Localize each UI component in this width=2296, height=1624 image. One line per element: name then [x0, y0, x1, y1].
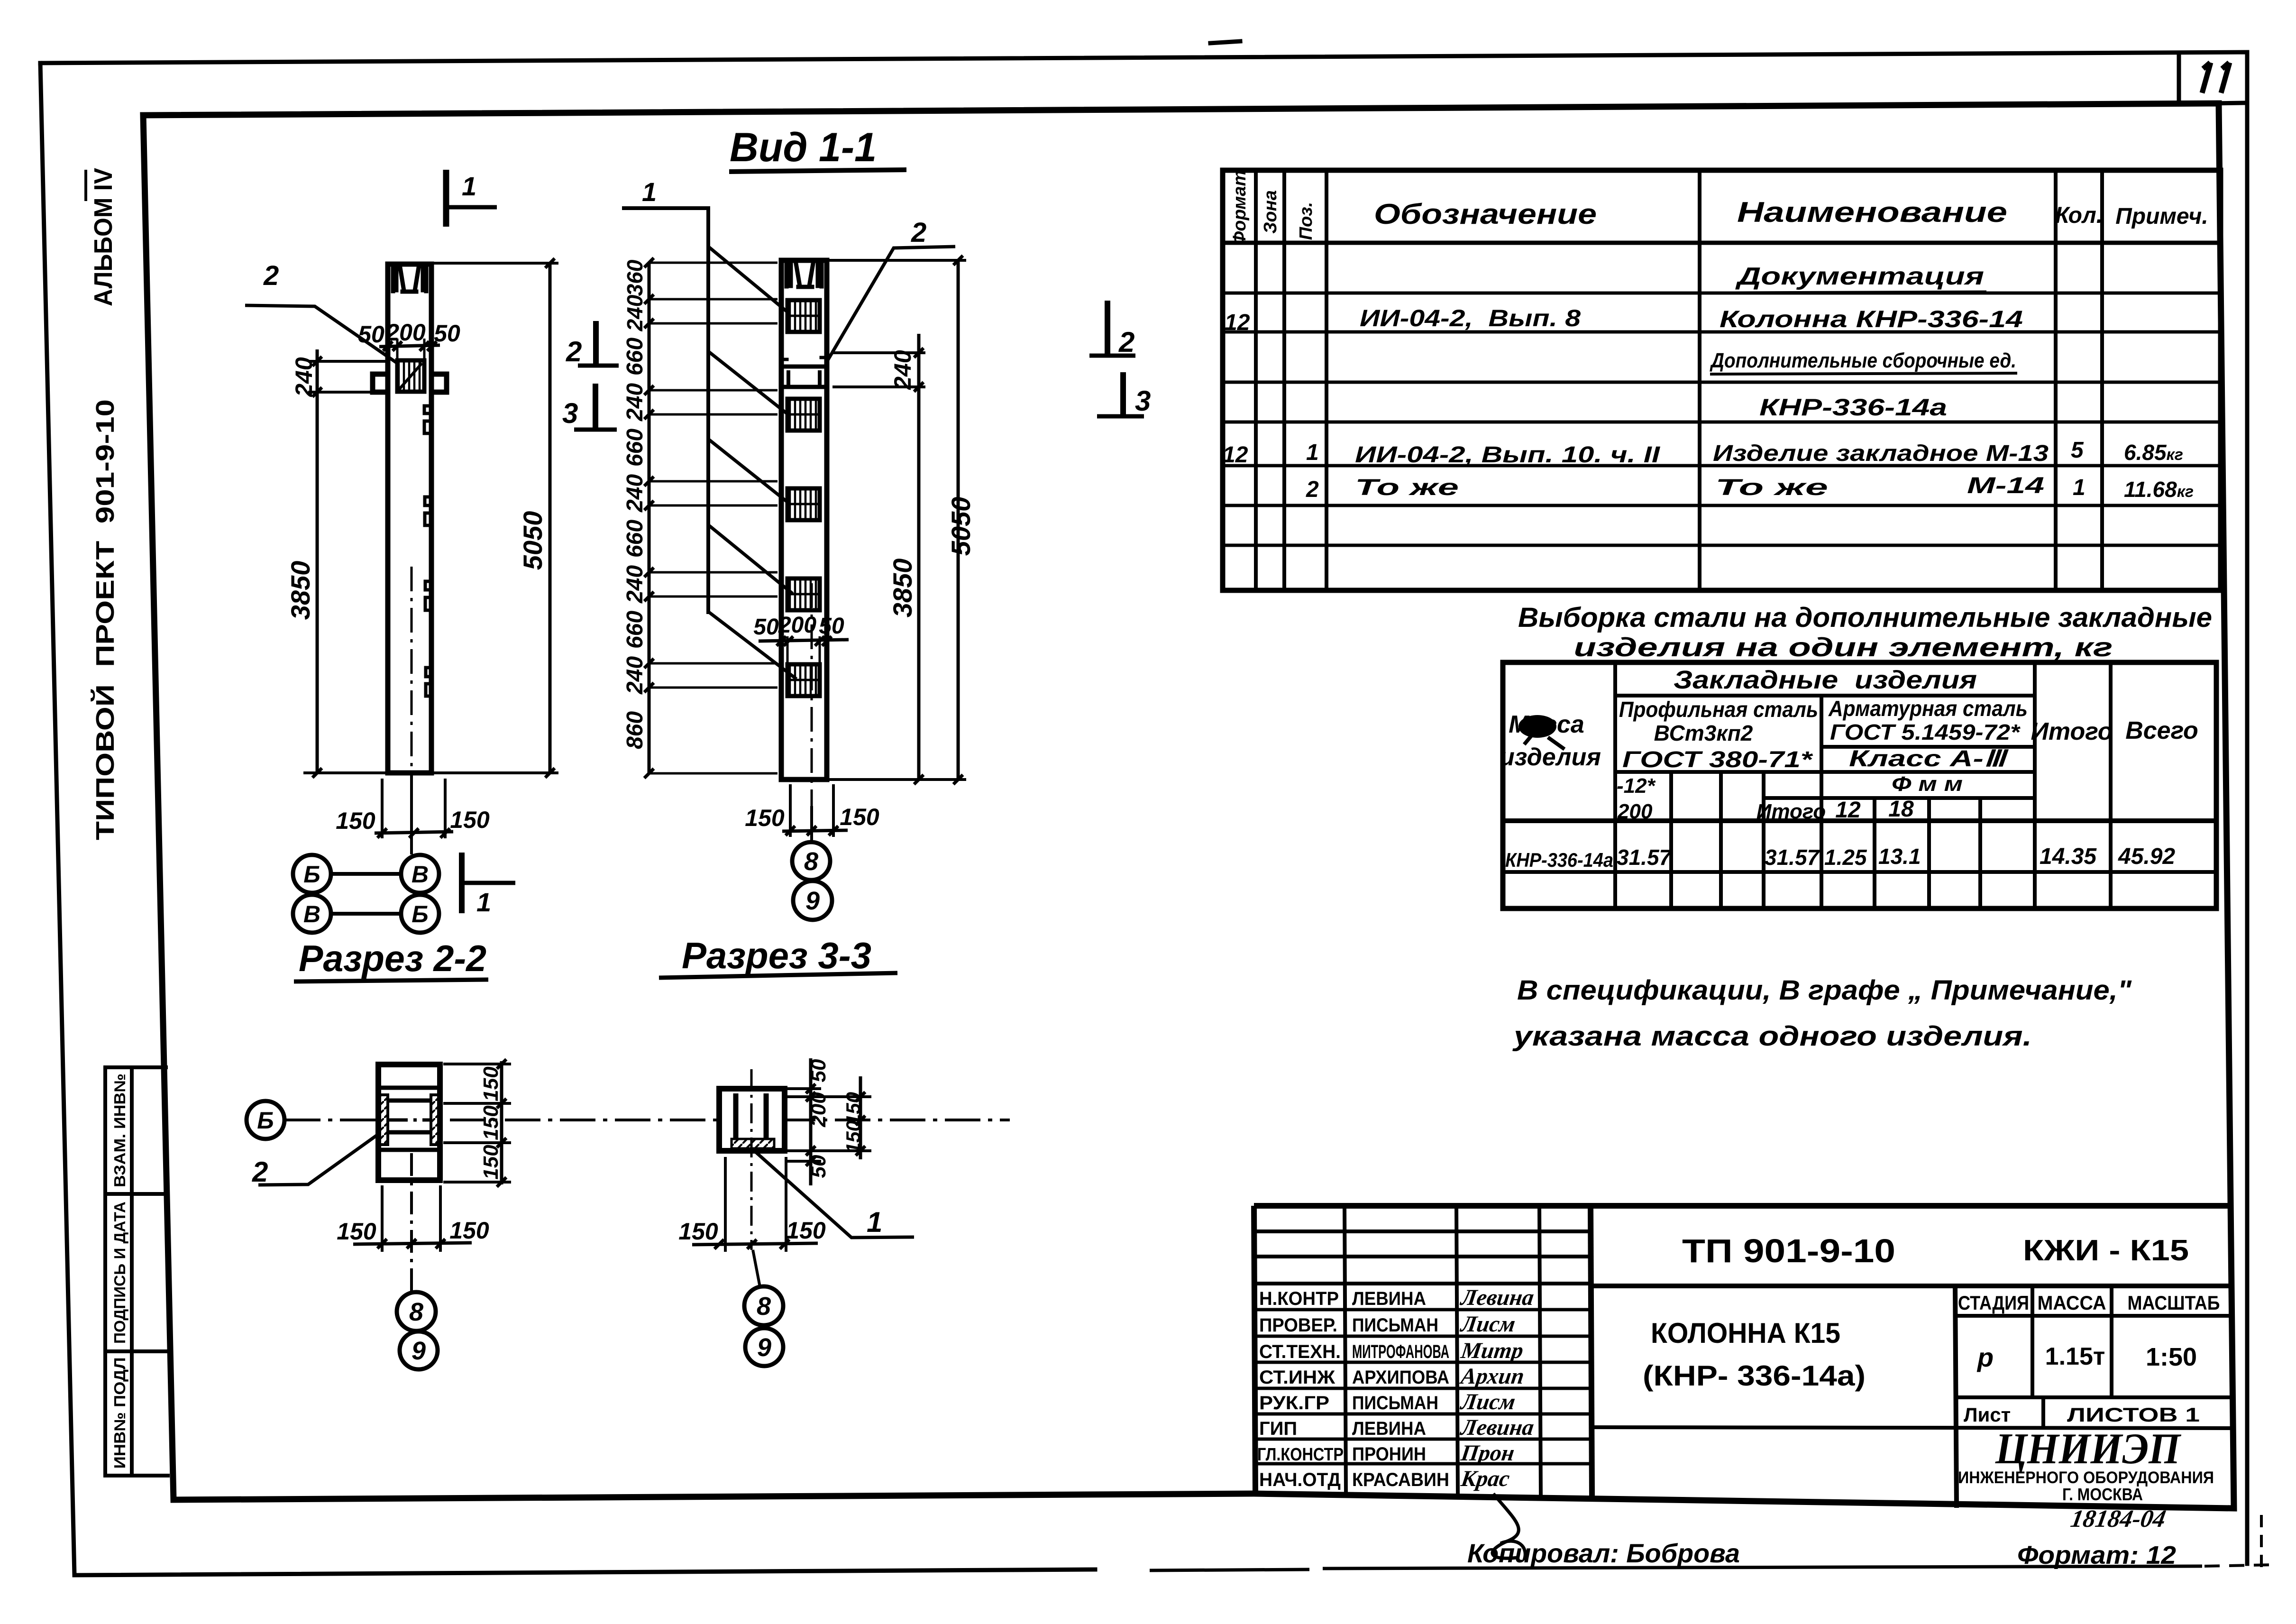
svg-text:150: 150: [842, 1120, 864, 1154]
svg-text:Б: Б: [257, 1107, 274, 1134]
svg-text:Наименование: Наименование: [1737, 196, 2007, 228]
column 2 centerline: [811, 583, 813, 806]
axis line B: [285, 1119, 1010, 1121]
svg-text:ТП 901-9-10: ТП 901-9-10: [1682, 1232, 1895, 1269]
svg-text:Колонна КНР-336-14: Колонна КНР-336-14: [1720, 306, 2023, 332]
svg-text:8: 8: [409, 1298, 423, 1326]
svg-text:150: 150: [479, 1105, 503, 1140]
svg-text:13.1: 13.1: [1878, 844, 1921, 869]
axis circle B: [247, 1101, 284, 1139]
svg-text:150: 150: [479, 1066, 503, 1101]
section mark 1 (top of column 1): [443, 170, 449, 227]
axis dash through section: [389, 1119, 431, 1122]
axis circle 9 (section 2-2): [400, 1331, 438, 1369]
dims 150 150 (second stack section 3-3): [859, 1076, 862, 1159]
svg-text:СТ.ТЕХН.: СТ.ТЕХН.: [1259, 1341, 1341, 1362]
svg-text:1: 1: [642, 177, 657, 207]
dim 150x3 (right of section 2-2): [443, 1064, 511, 1182]
svg-text:660: 660: [622, 520, 648, 558]
svg-text:р: р: [1976, 1342, 1994, 1372]
anchors: [736, 1093, 766, 1140]
svg-text:150: 150: [450, 807, 490, 833]
svg-text:150: 150: [337, 1218, 376, 1245]
svg-text:2: 2: [911, 217, 926, 248]
svg-text:Разрез 2-2: Разрез 2-2: [299, 937, 486, 979]
svg-text:Масса: Масса: [1509, 711, 1584, 738]
inventory strip: [105, 1067, 132, 1476]
svg-text:ИИ-04-2, Вып. 8: ИИ-04-2, Вып. 8: [1360, 305, 1581, 331]
svg-text:ГОСТ 5.1459-72*: ГОСТ 5.1459-72*: [1830, 720, 2021, 744]
svg-text:50: 50: [807, 1155, 830, 1178]
svg-text:изделия: изделия: [1500, 743, 1601, 771]
svg-text:2: 2: [252, 1156, 268, 1188]
svg-text:Формат: Формат: [1230, 170, 1250, 246]
svg-text:3850: 3850: [285, 561, 315, 620]
svg-text:50: 50: [807, 1059, 830, 1082]
svg-text:Архип: Архип: [1458, 1364, 1526, 1389]
page number box: [2179, 53, 2246, 104]
section 2-2 outline: [378, 1064, 440, 1180]
svg-text:150: 150: [479, 1145, 503, 1180]
embedded plate M-14: [397, 360, 424, 392]
svg-text:ВЗАМ. ИНВ№: ВЗАМ. ИНВ№: [111, 1073, 128, 1187]
svg-text:5050: 5050: [946, 497, 976, 556]
svg-text:5050: 5050: [518, 511, 548, 570]
svg-text:НАЧ.ОТД: НАЧ.ОТД: [1259, 1469, 1341, 1490]
svg-text:ПРОВЕР.: ПРОВЕР.: [1259, 1315, 1337, 1336]
svg-text:3850: 3850: [887, 559, 917, 618]
svg-text:3: 3: [1135, 385, 1151, 417]
svg-text:ВСт3кп2: ВСт3кп2: [1654, 721, 1753, 745]
svg-text:ЛЕВИНА: ЛЕВИНА: [1352, 1288, 1426, 1309]
svg-text:Арматурная сталь: Арматурная сталь: [1828, 696, 2028, 721]
corbel right: [431, 374, 447, 392]
column 1 centerline: [411, 567, 413, 853]
svg-text:9: 9: [805, 887, 820, 915]
dim 150 150 (below section 3-3): [725, 1157, 786, 1252]
svg-text:РУК.ГР: РУК.ГР: [1259, 1393, 1329, 1413]
dim 150 150 (bottom column 1): [382, 779, 445, 838]
svg-text:АРХИПОВА: АРХИПОВА: [1352, 1367, 1449, 1388]
svg-text:СТАДИЯ: СТАДИЯ: [1958, 1292, 2029, 1314]
svg-text:50: 50: [358, 321, 384, 348]
dim 240 (corbel, column 1): [308, 361, 386, 392]
centerline to circles: [753, 1250, 760, 1287]
svg-text:МАСШТАБ: МАСШТАБ: [2128, 1292, 2220, 1314]
column KNR-336-14a body outline: [781, 260, 827, 780]
svg-text:Класс А-Ⅲ: Класс А-Ⅲ: [1849, 746, 2009, 771]
svg-text:2: 2: [566, 336, 582, 367]
embedded items M-13 (hatched): [787, 300, 820, 696]
svg-text:Итого: Итого: [2031, 718, 2113, 745]
section mark 3 (right pair): [1120, 372, 1126, 415]
svg-text:Б: Б: [303, 861, 320, 888]
svg-text:360: 360: [622, 259, 647, 296]
svg-text:АЛЬБОМ IV: АЛЬБОМ IV: [89, 168, 118, 306]
svg-text:240: 240: [622, 383, 648, 422]
svg-text:КНР-336-14а: КНР-336-14а: [1505, 849, 1613, 871]
column 2 top fork: [787, 261, 822, 286]
section mark 3 (left pair): [593, 384, 598, 428]
svg-text:ПИСЬМАН: ПИСЬМАН: [1352, 1393, 1438, 1413]
svg-text:Выборка стали на дополнительны: Выборка стали на дополнительные закладны…: [1518, 602, 2212, 633]
corbel left: [373, 374, 388, 392]
svg-text:СТ.ИНЖ: СТ.ИНЖ: [1259, 1367, 1336, 1388]
svg-text:240: 240: [622, 656, 648, 695]
svg-text:Ф м м: Ф м м: [1892, 772, 1963, 796]
svg-text:12: 12: [1835, 798, 1861, 823]
svg-text:МАССА: МАССА: [2038, 1292, 2106, 1314]
svg-text:50: 50: [819, 614, 844, 639]
svg-text:240: 240: [622, 294, 647, 331]
svg-text:Крас: Крас: [1459, 1466, 1511, 1491]
svg-text:9: 9: [412, 1337, 426, 1365]
svg-text:МИТРОФАНОВА: МИТРОФАНОВА: [1352, 1341, 1449, 1362]
svg-text:150: 150: [336, 807, 375, 834]
svg-text:31.57: 31.57: [1765, 845, 1820, 870]
svg-text:Б: Б: [412, 901, 428, 927]
svg-text:ЛИСТОВ 1: ЛИСТОВ 1: [2067, 1404, 2200, 1426]
svg-text:240: 240: [622, 474, 648, 513]
svg-text:В спецификации, В графе „ Прим: В спецификации, В графе „ Примечание,": [1517, 975, 2132, 1006]
svg-text:Поз.: Поз.: [1296, 202, 1316, 240]
svg-text:ПИСЬМАН: ПИСЬМАН: [1352, 1315, 1438, 1336]
svg-text:Всего: Всего: [2125, 717, 2198, 744]
svg-text:М-14: М-14: [1967, 473, 2044, 498]
svg-text:150: 150: [449, 1217, 489, 1244]
axis circle 8 (section 2-2): [397, 1292, 436, 1331]
axis circle 8 (section 3-3): [744, 1286, 783, 1325]
svg-text:То же: То же: [1355, 475, 1459, 500]
svg-text:Лист: Лист: [1964, 1404, 2011, 1426]
section mark 2 (right pair): [1105, 301, 1110, 355]
dim 5050 (column 2): [827, 260, 966, 780]
fold mark top: [1210, 41, 1240, 43]
svg-text:ЛЕВИНА: ЛЕВИНА: [1352, 1418, 1426, 1439]
svg-text:Прон: Прон: [1459, 1440, 1516, 1466]
svg-text:Зона: Зона: [1261, 190, 1281, 234]
embedded plate (hatched): [732, 1139, 774, 1148]
dim 150 150 (bottom column 2): [790, 784, 833, 837]
centerline down to circles: [410, 1153, 413, 1292]
axis circles B V V B: [410, 774, 413, 854]
column K15 body outline: [388, 264, 431, 773]
section mark 1 (bottom): [459, 853, 465, 913]
svg-text:150: 150: [842, 1092, 864, 1125]
svg-text:3: 3: [562, 397, 578, 429]
page number 11: [2202, 63, 2230, 93]
svg-text:ИИ-04-2, Вып. 10. ч. II: ИИ-04-2, Вып. 10. ч. II: [1355, 442, 1661, 468]
inner frame: [143, 103, 2234, 1508]
svg-text:КРАСАВИН: КРАСАВИН: [1352, 1469, 1449, 1490]
axis circle 8 (column 2): [792, 842, 830, 880]
svg-text:ТИПОВОЙ ПРОЕКТ 901-9-10: ТИПОВОЙ ПРОЕКТ 901-9-10: [91, 399, 119, 840]
svg-text:Митр: Митр: [1459, 1338, 1525, 1363]
svg-text:200: 200: [807, 1092, 830, 1128]
svg-text:5: 5: [2071, 438, 2084, 463]
svg-text:200: 200: [1617, 800, 1653, 823]
svg-text:240: 240: [291, 357, 317, 397]
svg-text:ГИП: ГИП: [1259, 1418, 1297, 1439]
svg-text:31.57: 31.57: [1617, 845, 1673, 870]
svg-text:50: 50: [434, 320, 460, 347]
svg-text:Вид 1-1: Вид 1-1: [730, 125, 877, 170]
svg-text:660: 660: [622, 429, 648, 467]
svg-text:Дополнительные сборочные ед.: Дополнительные сборочные ед.: [1709, 349, 2016, 372]
svg-text:150: 150: [745, 805, 785, 831]
svg-text:Лисм: Лисм: [1458, 1389, 1517, 1414]
svg-text:Лисм: Лисм: [1458, 1312, 1517, 1337]
svg-text:150: 150: [840, 804, 879, 830]
svg-text:Документация: Документация: [1735, 263, 1984, 290]
svg-text:660: 660: [622, 611, 648, 649]
svg-text:1: 1: [2073, 475, 2086, 500]
svg-text:18: 18: [1888, 797, 1914, 822]
svg-text:ГОСТ 380-71*: ГОСТ 380-71*: [1622, 747, 1813, 772]
svg-text:То же: То же: [1715, 475, 1828, 500]
joint at corbel level: [781, 367, 827, 387]
M-13 edge marks on right face: [424, 406, 431, 696]
svg-text:Разрез 3-3: Разрез 3-3: [682, 935, 871, 976]
svg-text:КОЛОННА К15: КОЛОННА К15: [1651, 1317, 1840, 1349]
svg-text:240: 240: [889, 350, 916, 390]
svg-text:860: 860: [622, 711, 648, 749]
svg-text:50: 50: [753, 615, 779, 640]
svg-text:ИНВ№ ПОДЛ: ИНВ№ ПОДЛ: [111, 1358, 128, 1469]
svg-text:1: 1: [1306, 440, 1319, 465]
dim stack 360/240/660... (left of column 2): [648, 263, 651, 773]
svg-text:150: 150: [786, 1217, 826, 1244]
svg-text:240: 240: [622, 565, 648, 604]
svg-text:150: 150: [678, 1218, 718, 1245]
axis circle 9 (column 2): [793, 881, 832, 920]
svg-text:18184-04: 18184-04: [2068, 1505, 2168, 1532]
svg-text:660: 660: [622, 338, 648, 376]
svg-text:В: В: [303, 901, 320, 927]
svg-text:2: 2: [1118, 326, 1134, 358]
svg-text:2: 2: [263, 260, 279, 291]
svg-text:ПОДПИСЬ И ДАТА: ПОДПИСЬ И ДАТА: [111, 1202, 128, 1344]
svg-text:ПРОНИН: ПРОНИН: [1352, 1444, 1426, 1465]
dim 5050 (column 1): [431, 263, 558, 773]
svg-text:1.15т: 1.15т: [2045, 1343, 2105, 1370]
channel M-14 in section: [387, 1101, 432, 1132]
ink blot: [1518, 715, 1556, 738]
svg-text:9: 9: [757, 1333, 771, 1362]
svg-text:Примеч.: Примеч.: [2115, 204, 2208, 229]
axis circle 9 (section 3-3): [745, 1328, 783, 1366]
svg-text:1.25: 1.25: [1824, 845, 1867, 870]
svg-text:1: 1: [476, 887, 491, 917]
column top fork: [393, 265, 426, 291]
svg-text:ГЛ.КОНСТР: ГЛ.КОНСТР: [1257, 1445, 1344, 1465]
svg-text:8: 8: [804, 847, 818, 876]
svg-text:Итого: Итого: [1756, 800, 1826, 823]
signature flourish: [1492, 1494, 1525, 1560]
label 1 with leader (section 3-3): [754, 1151, 914, 1238]
dim 3850 (column 2): [917, 408, 921, 780]
svg-text:Изделие закладное М-13: Изделие закладное М-13: [1713, 441, 2049, 466]
svg-text:-12*: -12*: [1617, 774, 1656, 798]
svg-text:Кол.: Кол.: [2055, 203, 2103, 228]
svg-text:2: 2: [1306, 477, 1319, 502]
dim 240 (joint, right of column 2): [832, 353, 925, 387]
svg-text:ЦНИИЭП: ЦНИИЭП: [1995, 1424, 2181, 1473]
svg-text:Левина: Левина: [1458, 1285, 1535, 1310]
svg-text:Г. МОСКВА: Г. МОСКВА: [2062, 1485, 2143, 1504]
svg-text:1: 1: [462, 171, 476, 201]
dim 3850 (column 1): [316, 404, 319, 773]
svg-text:12: 12: [1225, 310, 1250, 335]
svg-text:Закладные изделия: Закладные изделия: [1674, 666, 1977, 694]
svg-text:12: 12: [1223, 442, 1248, 468]
dim 150 150 (below section 2-2): [382, 1185, 440, 1252]
svg-text:Н.КОНТР: Н.КОНТР: [1259, 1288, 1339, 1309]
svg-text:Профильная сталь: Профильная сталь: [1619, 697, 1818, 722]
section line 1 with leaders to M-13 items: [622, 208, 708, 614]
svg-text:1: 1: [867, 1206, 882, 1238]
dims 50 200 50 (right of section 3-3): [787, 1089, 871, 1161]
svg-text:КНР-336-14а: КНР-336-14а: [1759, 394, 1947, 421]
svg-text:Левина: Левина: [1458, 1415, 1535, 1440]
svg-text:45.92: 45.92: [2118, 844, 2175, 869]
svg-text:В: В: [412, 861, 429, 888]
svg-text:КЖИ - К15: КЖИ - К15: [2023, 1234, 2189, 1267]
svg-text:(КНР- 336-14а): (КНР- 336-14а): [1643, 1360, 1866, 1392]
svg-text:8: 8: [757, 1292, 771, 1321]
svg-text:Обозначение: Обозначение: [1374, 198, 1597, 230]
centerline vertical: [750, 1069, 753, 1250]
svg-text:14.35: 14.35: [2040, 844, 2097, 869]
section mark 2 (left pair): [593, 321, 599, 364]
svg-text:изделия на один элемент, кг: изделия на один элемент, кг: [1574, 632, 2113, 662]
svg-text:указана масса одного изделия.: указана масса одного изделия.: [1512, 1021, 2032, 1052]
section 3-3 outline: [719, 1089, 785, 1151]
svg-text:1:50: 1:50: [2146, 1343, 2197, 1371]
